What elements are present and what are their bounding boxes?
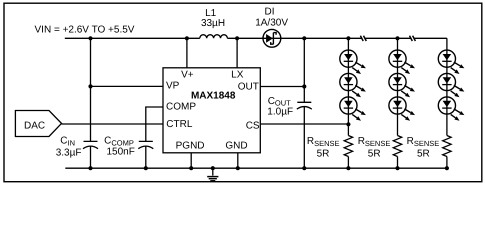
svg-text:CTRL: CTRL [166, 119, 193, 130]
resistor RSENSE3 [443, 136, 451, 157]
svg-text:1.0µF: 1.0µF [267, 107, 293, 118]
LED D9 column3 row2 [438, 73, 464, 97]
node VP junction [88, 84, 92, 88]
svg-text:CS: CS [246, 121, 260, 132]
node rail column2 junction [395, 36, 399, 40]
capacitor COUT [297, 102, 312, 109]
wire LED column 2 [397, 38, 399, 168]
svg-text:GND: GND [225, 141, 247, 152]
DAC block [15, 111, 61, 137]
LED D3 column1 row2 [340, 73, 366, 97]
svg-text:COMP: COMP [166, 102, 196, 113]
LED D7 column2 row3 [389, 97, 415, 121]
wire LX stub [236, 38, 238, 68]
node rail GND junction [236, 166, 240, 170]
svg-text:150nF: 150nF [107, 146, 135, 157]
diode D1 (Schottky) [263, 29, 281, 47]
node rail R2 junction [395, 166, 399, 170]
node rail CCOMP junction [144, 166, 148, 170]
node OUT-COUT junction [302, 84, 306, 88]
wire CCOMP to ground rail [145, 146, 147, 168]
svg-text:1A/30V: 1A/30V [255, 17, 288, 28]
svg-text:VIN = +2.6V TO +5.5V: VIN = +2.6V TO +5.5V [35, 25, 135, 36]
LED D10 column3 row3 [438, 97, 464, 121]
wire LED column 3 [446, 38, 448, 168]
wire CS [260, 123, 348, 125]
node rail PGND junction [189, 166, 193, 170]
wire CTRL from DAC [62, 123, 164, 125]
node diode output junction [302, 36, 306, 40]
node CS sense junction [346, 122, 350, 126]
wire GND stub [237, 153, 239, 168]
wire VP [91, 85, 164, 87]
wire bottom ground rail [65, 167, 447, 169]
ground symbol [207, 168, 218, 181]
LED D2 column1 row1 [340, 50, 366, 74]
wire PGND stub [190, 153, 192, 168]
wire COUT branch [303, 38, 305, 168]
svg-text:5R: 5R [317, 149, 330, 160]
node rail COUT junction [302, 166, 306, 170]
svg-text:LX: LX [231, 70, 244, 81]
LED D6 column2 row2 [389, 73, 415, 97]
svg-text:OUT: OUT [238, 81, 259, 92]
capacitor CCOMP [138, 141, 153, 148]
svg-text:V+: V+ [181, 70, 194, 81]
resistor RSENSE2 [393, 136, 401, 157]
svg-text:VP: VP [166, 80, 180, 91]
rail break marks (more LEDs) [360, 36, 415, 41]
resistor RSENSE1 [344, 136, 352, 157]
node rail CIN junction [88, 166, 92, 170]
wire OUT [260, 86, 304, 88]
svg-text:CIN: CIN [60, 136, 75, 148]
svg-text:PGND: PGND [176, 141, 205, 152]
wire V+ stub [186, 38, 188, 68]
node rail R1 junction [346, 166, 350, 170]
node rail ground junction [211, 166, 215, 170]
node rail column1 junction [346, 36, 350, 40]
op-amp U1 MAX1848 box [163, 68, 260, 153]
LED D4 column1 row3 [340, 97, 366, 121]
svg-text:MAX1848: MAX1848 [191, 90, 236, 101]
wire LED column 1 [347, 38, 349, 168]
svg-text:DAC: DAC [24, 120, 45, 131]
node VIN-CIN junction [88, 36, 92, 40]
svg-text:RSENSE: RSENSE [307, 136, 340, 148]
svg-text:33µH: 33µH [201, 18, 225, 29]
wire CIN branch (VIN to GND) [90, 38, 92, 168]
wire COMP to CCOMP [146, 107, 163, 141]
svg-text:5R: 5R [368, 149, 381, 160]
svg-text:3.3µF: 3.3µF [56, 147, 82, 158]
inductor L1 [200, 35, 228, 39]
capacitor CIN [83, 141, 98, 148]
svg-text:DI: DI [265, 6, 275, 17]
node rail R3 junction [445, 166, 449, 170]
wire VIN top rail [65, 37, 447, 39]
svg-text:5R: 5R [417, 149, 430, 160]
svg-text:RSENSE: RSENSE [407, 136, 440, 148]
node VIN-V+ junction [185, 36, 189, 40]
LED D5 column2 row1 [389, 50, 415, 74]
svg-text:RSENSE: RSENSE [358, 136, 391, 148]
LED D8 column3 row1 [438, 50, 464, 74]
node LX junction [235, 36, 239, 40]
